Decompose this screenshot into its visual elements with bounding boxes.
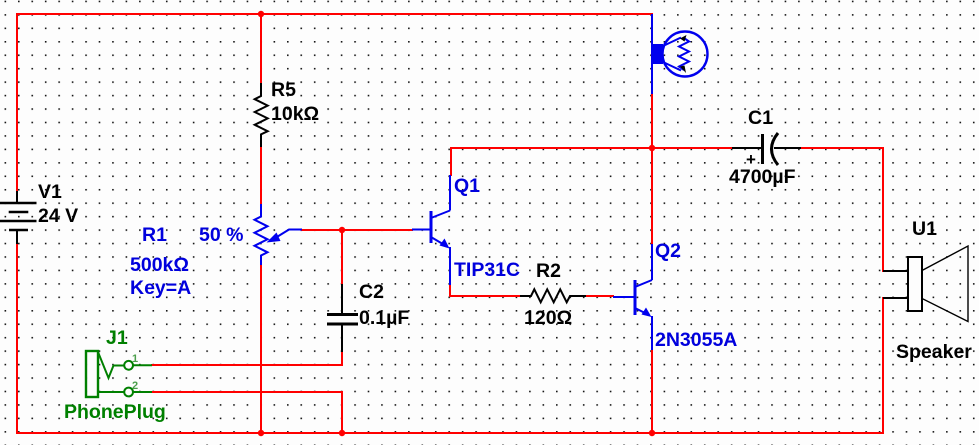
wire R5 to R1 — [260, 147, 262, 204]
svg-text:50 %: 50 % — [199, 224, 243, 246]
wire center node to C1 — [652, 147, 732, 149]
speaker U1 — [883, 246, 968, 322]
transistor Q1 — [412, 175, 450, 285]
wire C2 bottom to J1 pin1 wire — [152, 352, 342, 365]
capacitor C1 — [732, 133, 801, 165]
capacitor C2 — [327, 284, 358, 352]
junction node R1 / bottom rail — [258, 430, 264, 436]
svg-text:1: 1 — [132, 353, 138, 365]
junction node collector bus — [649, 145, 655, 151]
wire node to Q1 base — [342, 229, 412, 231]
svg-text:PhonePlug: PhonePlug — [64, 401, 166, 423]
potentiometer R1 — [255, 204, 303, 265]
svg-text:R5: R5 — [271, 79, 296, 101]
wire Q1 collector to center node — [451, 148, 652, 175]
wire battery bottom to bottom rail — [16, 244, 18, 433]
wire lamp bottom to center node — [651, 94, 653, 148]
wire top rail — [17, 13, 652, 15]
svg-text:TIP31C: TIP31C — [454, 259, 520, 281]
Q2 emitter arrowhead — [642, 308, 652, 318]
junction node wiper / base / C2 — [339, 227, 345, 233]
junction node top rail / R5 — [258, 11, 264, 17]
battery V1 — [0, 191, 37, 244]
svg-text:Q1: Q1 — [454, 175, 480, 197]
svg-text:Speaker: Speaker — [896, 341, 972, 363]
junction node J1 pin2 / bottom rail — [339, 430, 345, 436]
svg-text:4700µF: 4700µF — [729, 166, 796, 188]
wire Q1 emitter to R2 — [450, 285, 520, 296]
svg-text:2N3055A: 2N3055A — [655, 329, 737, 351]
svg-text:Q2: Q2 — [655, 240, 681, 262]
wire node down to C2 — [341, 230, 343, 284]
wire center node down to Q2 collector — [651, 148, 653, 244]
svg-text:C1: C1 — [748, 107, 773, 129]
wire R1 wiper to node — [302, 229, 342, 231]
resistor R5 — [255, 83, 268, 147]
svg-text:120Ω: 120Ω — [524, 307, 572, 329]
wire R2 to Q2 base — [586, 295, 613, 297]
svg-text:C2: C2 — [359, 281, 384, 303]
wire speaker bottom to bottom rail — [882, 298, 884, 433]
phone plug J1 — [86, 351, 152, 397]
wire bottom rail — [17, 432, 883, 434]
wire J1 pin2 to bottom rail — [152, 392, 342, 433]
svg-text:R1: R1 — [142, 224, 167, 246]
svg-text:Key=A: Key=A — [130, 277, 191, 299]
svg-text:V1: V1 — [38, 181, 62, 203]
svg-text:U1: U1 — [912, 218, 937, 240]
wire left from top rail to battery top — [16, 14, 18, 191]
svg-text:J1: J1 — [106, 327, 128, 349]
wire Q2 emitter to bottom rail — [651, 350, 653, 433]
wire top rail to R5 — [260, 14, 262, 83]
svg-text:0.1µF: 0.1µF — [359, 307, 409, 329]
svg-text:500kΩ: 500kΩ — [130, 254, 189, 276]
svg-text:24 V: 24 V — [38, 205, 78, 227]
transistor Q2 — [613, 244, 652, 350]
Q1 emitter arrowhead — [440, 239, 450, 249]
svg-text:2: 2 — [132, 380, 138, 392]
lamp — [651, 14, 708, 94]
svg-text:R2: R2 — [536, 260, 561, 282]
wire R1 bottom to bottom rail — [260, 265, 262, 433]
junction node Q2 emitter / bottom rail — [649, 430, 655, 436]
resistor R2 — [520, 289, 586, 302]
wire C1 to speaker top — [801, 148, 883, 271]
svg-text:10kΩ: 10kΩ — [271, 103, 319, 125]
R1 wiper arrowhead — [267, 233, 281, 243]
